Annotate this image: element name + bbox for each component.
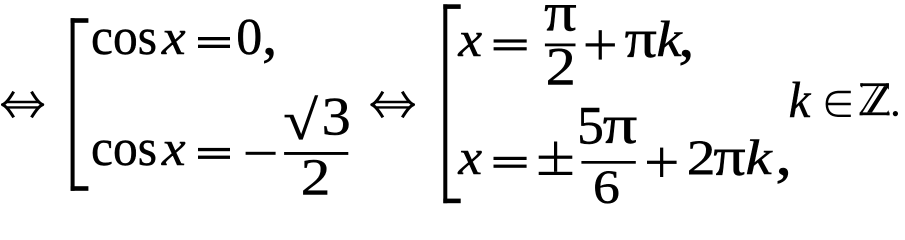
svg-text:cos: cos <box>91 8 157 65</box>
svg-text:2: 2 <box>687 129 716 185</box>
svg-text:π: π <box>603 95 638 155</box>
svg-text:,: , <box>775 120 792 187</box>
svg-text:3: 3 <box>322 88 351 148</box>
svg-text:,: , <box>262 2 277 68</box>
svg-text:x: x <box>457 13 482 68</box>
svg-text:2: 2 <box>546 37 576 96</box>
svg-text:6: 6 <box>593 161 620 208</box>
svg-text:π: π <box>713 127 745 188</box>
svg-text:,: , <box>678 3 694 70</box>
svg-text:5: 5 <box>577 96 604 156</box>
svg-text:π: π <box>625 9 657 70</box>
svg-text:0: 0 <box>236 9 262 66</box>
svg-text:cos: cos <box>91 119 157 176</box>
svg-text:√: √ <box>283 90 318 151</box>
svg-text:2: 2 <box>301 150 331 207</box>
svg-text:k: k <box>789 71 812 128</box>
svg-text:k: k <box>745 130 773 185</box>
svg-text:x: x <box>457 130 482 185</box>
svg-text:x: x <box>161 122 186 177</box>
svg-text:x: x <box>161 11 186 66</box>
